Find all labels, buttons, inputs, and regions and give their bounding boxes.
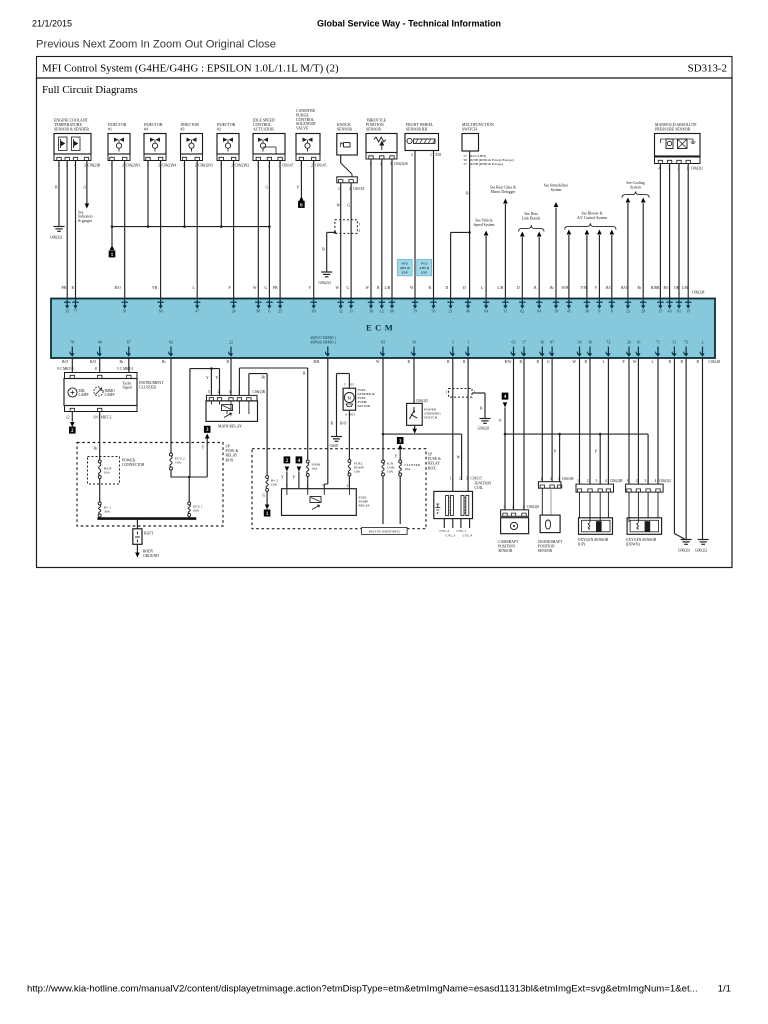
wire injector #2 supply [220,161,222,227]
ECM pin 23 [627,299,629,307]
svg-text:CYL.2: CYL.2 [440,529,450,533]
wire fuel pump fuse to relay pin2 [348,476,350,489]
svg-text:P: P [293,476,295,480]
svg-text:I/P: I/P [428,453,432,457]
svg-text:& gauges: & gauges [78,219,93,223]
svg-text:B/O: B/O [62,360,68,364]
ECM pin 21 [450,299,452,307]
wire TPS pin1 to ECM 39 [370,159,372,299]
wire ECM 51 to ground [673,358,675,534]
svg-text:C06(2)8: C06(2)8 [692,291,704,295]
svg-text:4: 4 [229,390,231,394]
svg-text:C06108: C06108 [562,477,574,481]
svg-text:Speed System: Speed System [474,223,495,227]
svg-text:SENSOR & SENDER: SENSOR & SENDER [54,127,89,131]
svg-text:C06(2)N2: C06(2)N2 [235,164,250,168]
svg-text:10A: 10A [312,467,319,471]
wire ECT pin1 to ground [58,161,60,227]
svg-text:54: 54 [578,339,582,344]
svg-text:System: System [630,185,641,189]
svg-text:G06(2)3: G06(2)3 [678,549,690,553]
flag 1 [109,250,116,257]
wire to B+1 fuse [99,479,101,503]
svg-text:L/B: L/B [498,286,504,290]
wire MAP pin4 to ECM 15 [659,164,661,299]
wire ECM 87 to crank pin2 [551,358,553,482]
svg-text:30A: 30A [104,510,111,514]
svg-text:84: 84 [537,309,541,314]
svg-text:G: G [347,286,350,290]
wire motor to fuel pump fuse [348,410,350,459]
wire ECM 2 to ground [702,358,704,539]
svg-text:M23B (RHD & Europe): M23B (RHD & Europe) [469,162,504,166]
W line to ignition coil [383,433,462,435]
svg-text:Y/B: Y/B [581,286,588,290]
svg-text:FRONT WHEEL: FRONT WHEEL [406,123,434,127]
wire P to crank pin3 [559,434,561,482]
svg-text:B/W: B/W [505,360,512,364]
svg-text:C06(2)N4: C06(2)N4 [162,164,177,168]
svg-text:4: 4 [655,479,657,483]
svg-text:31: 31 [503,309,507,314]
svg-text:SENSOR: SENSOR [366,127,381,131]
svg-text:60: 60 [159,309,163,314]
wire SNSR fuse to relay pin3 [307,477,309,489]
svg-text:25: 25 [278,309,282,314]
svg-text:W: W [337,204,341,208]
svg-text:GROUND: GROUND [143,554,159,558]
svg-text:1: 1 [359,223,361,227]
wire MIL from ECM 78 [71,358,73,373]
knock sensor connector C06118 [337,177,358,183]
svg-text:G06(2)1: G06(2)1 [478,427,490,431]
flag 1 (fuel) [264,510,271,517]
svg-text:10A: 10A [175,461,182,465]
svg-text:73: 73 [684,339,688,344]
wire B+2 fuse to flag1 [266,491,268,504]
svg-text:C06147: C06147 [282,164,294,168]
wire to vehicle speed system [485,236,487,299]
svg-text:CYL.1: CYL.1 [457,529,467,533]
svg-text:3: 3 [645,479,647,483]
wire ECM 46/49 to fuel pump relay [327,358,329,484]
svg-text:2: 2 [158,164,160,168]
svg-text:Signal: Signal [123,386,132,390]
svg-text:2: 2 [195,164,197,168]
svg-text:57: 57 [464,162,468,166]
svg-text:91: 91 [123,309,127,314]
svg-text:1: 1 [577,479,579,483]
wire to rear glass defogger [504,204,506,299]
svg-text:B/O: B/O [90,360,96,364]
svg-text:9 C MKT-2: 9 C MKT-2 [57,367,74,371]
wire bus to joint flag [111,227,113,246]
svg-text:ACTUATOR: ACTUATOR [253,127,274,131]
wire battery to body ground [136,544,138,553]
svg-text:C06(2)N3: C06(2)N3 [198,164,213,168]
svg-text:LAMP: LAMP [79,393,89,397]
svg-text:2: 2 [231,164,233,168]
wire injector #2 signal [233,161,235,299]
wire MAP pin3 to ECM 43 [669,164,671,299]
flag 4 (fuel) [296,456,303,463]
instrument cluster [65,373,138,379]
svg-text:TEMPERATURE: TEMPERATURE [54,123,83,127]
svg-text:W: W [633,360,637,364]
svg-text:2: 2 [636,479,638,483]
svg-text:2: 2 [411,153,413,157]
ECM pin 31 [504,299,506,307]
ECM pin 43 [669,299,671,307]
wire relay pin3 to SNSR fuse [238,368,240,395]
svg-text:3: 3 [466,477,468,481]
svg-text:R/B: R/B [314,360,320,364]
svg-text:10A: 10A [405,467,412,471]
svg-text:1: 1 [523,505,525,509]
svg-text:1/1: 1/1 [718,984,731,995]
wire ECM 72 to oxy-up pin4 [607,358,609,484]
svg-text:W/O: W/O [421,261,428,265]
svg-text:49(With IMMO.): 49(With IMMO.) [310,341,336,345]
svg-text:1: 1 [450,477,452,481]
svg-text:10A: 10A [104,471,111,475]
ECM pin 69 [313,299,315,307]
svg-text:63: 63 [512,339,516,344]
svg-text:60: 60 [390,309,394,314]
svg-text:G: G [263,494,266,498]
wire injector #1 signal [124,161,126,299]
flag 3 (cluster fuse) [397,437,404,444]
svg-text:2: 2 [122,164,124,168]
option box W/ ABS & ESP [417,259,432,276]
svg-text:G06(2)3: G06(2)3 [319,281,331,285]
wire ECM 36 to oxy-up pin2 [589,358,591,484]
svg-text:INJECTOR: INJECTOR [144,123,163,127]
wire TPS pin2 to ECM 12 [381,159,383,299]
svg-text:#3: #3 [181,127,185,131]
svg-text:G: G [266,186,269,190]
svg-text:ABS &: ABS & [419,266,429,270]
svg-text:72: 72 [606,339,610,344]
ECM pin 81 [678,299,680,307]
wire PS switch to W line [414,425,416,429]
ECM pin 60 [391,299,393,307]
svg-text:B/O: B/O [115,286,121,290]
wire ECM 1 to coil pin3 [467,358,469,491]
wire injector #4 supply [147,161,149,227]
ECM pin 91 [124,299,126,307]
svg-text:IDLE SPEED: IDLE SPEED [253,119,275,123]
svg-text:46(W/O IMMO.): 46(W/O IMMO.) [310,336,336,340]
svg-text:POWER: POWER [122,459,135,463]
svg-text:SD313-2: SD313-2 [688,63,727,75]
svg-text:62: 62 [520,309,524,314]
svg-text:L/B: L/B [385,286,391,290]
svg-text:9: 9 [598,309,600,314]
svg-text:69: 69 [312,309,316,314]
svg-text:45: 45 [567,309,571,314]
svg-text:KNOCK: KNOCK [337,123,351,127]
svg-text:3: 3 [452,339,454,344]
svg-text:W: W [366,286,370,290]
svg-text:ABS &: ABS & [400,266,410,270]
svg-text:4: 4 [605,479,607,483]
svg-text:RELAY: RELAY [428,462,440,466]
svg-text:W: W [573,360,577,364]
wire junction to ECU1 fuse [188,477,190,502]
svg-text:YB: YB [152,286,158,290]
svg-text:W/O: W/O [401,261,408,265]
note HOT IN ON(START) [362,528,408,535]
svg-text:COIL: COIL [475,486,484,490]
power steering switch [407,403,423,425]
svg-text:M: M [348,395,352,400]
svg-text:OXYGEN SENSOR: OXYGEN SENSOR [578,538,609,542]
flag 2 (fuel) [284,456,291,463]
P distribution line [505,433,648,435]
svg-text:CYL.3: CYL.3 [446,533,456,537]
fuse B+2 10A [266,475,269,478]
svg-text:87: 87 [550,339,554,344]
svg-text:D: D [446,286,449,290]
flag 2 [69,427,76,434]
svg-text:PB: PB [273,286,278,290]
wire bus to battery [136,519,138,529]
ground G06(2)3 right [681,539,692,541]
svg-text:PURGE: PURGE [296,113,309,117]
svg-text:(UP): (UP) [578,543,586,547]
svg-text:10: 10 [412,339,416,344]
svg-text:C06(2)R: C06(2)R [253,390,266,394]
svg-text:POSITION: POSITION [538,545,555,549]
svg-text:B/BR: B/BR [651,286,660,290]
wire flag4 to camshaft sensor [504,407,506,509]
wire flag3 to cluster fuse chain [206,439,208,478]
svg-text:10A: 10A [354,470,361,474]
svg-text:77: 77 [74,309,78,314]
svg-text:C06(2)B: C06(2)B [88,164,101,168]
ECM pin 62 [521,299,523,307]
svg-text:INSTRUMENT: INSTRUMENT [139,381,164,385]
fuse ECU2 10A [170,358,172,453]
wire ECU2 to junction [170,470,172,477]
svg-text:36: 36 [588,339,592,344]
svg-text:3: 3 [596,479,598,483]
svg-text:FUSE &: FUSE & [226,449,239,453]
svg-text:http://www.kia-hotline.com/man: http://www.kia-hotline.com/manualV2/cont… [27,984,698,995]
wire ECM 36 to crank pin1 [541,358,543,482]
wire knock shield to ground [334,231,337,234]
battery BATT [133,529,142,545]
fuse SNSR 10A [306,460,309,463]
wire ISCA pin2 to ECM 6 [268,161,270,299]
svg-text:71: 71 [656,339,660,344]
svg-text:51: 51 [672,339,676,344]
svg-text:3: 3 [307,484,309,488]
wire immo lamp to power connector [99,412,101,461]
svg-text:64: 64 [484,309,488,314]
svg-text:26: 26 [627,339,631,344]
ECM pin 15 [659,299,661,307]
svg-text:ENGINE COOLANT: ENGINE COOLANT [54,119,89,123]
svg-text:Y: Y [281,476,284,480]
svg-text:2: 2 [84,164,86,168]
svg-text:D: D [227,360,230,364]
flag 3 (main relay) [204,426,211,433]
wire IMMO from ECM 40 [99,358,101,373]
wire ECM 10 to power steering switch [413,358,415,403]
wire knock pin1 to ECM 32 [340,183,342,299]
wire ECM 3 to coil pin1 [452,358,454,491]
svg-text:Y: Y [595,286,598,290]
svg-text:ESP: ESP [421,271,427,275]
svg-text:PB: PB [62,286,67,290]
svg-text:30: 30 [585,309,589,314]
svg-text:D: D [517,286,520,290]
svg-text:INJECTOR: INJECTOR [108,123,127,127]
svg-text:2: 2 [550,477,552,481]
wire FWS pin2 to ECM 79 [414,151,416,299]
svg-text:FUSE &: FUSE & [428,457,441,461]
svg-text:1: 1 [467,339,469,344]
ECM pin 46 [467,299,469,307]
svg-text:B/O: B/O [664,286,670,290]
svg-text:B: B [322,248,325,252]
wire injector #4 signal [160,161,162,299]
fuse CLUSTER 10A [399,460,402,463]
svg-text:Y: Y [206,376,209,380]
svg-text:CLUSTER: CLUSTER [139,385,156,389]
svg-text:W/B: W/B [562,286,570,290]
svg-text:12: 12 [380,309,384,314]
svg-text:81: 81 [677,309,681,314]
diagram frame [37,78,733,568]
ground G608 [331,436,342,438]
svg-text:MOTOR: MOTOR [358,404,371,408]
svg-text:MULTIFUNCTION: MULTIFUNCTION [462,123,494,127]
svg-text:POSITION: POSITION [498,545,515,549]
power connector [88,457,120,485]
ECM pin 28 [642,299,644,307]
svg-text:C06148: C06148 [709,360,721,364]
svg-text:BOX: BOX [226,458,234,462]
svg-text:W: W [336,286,340,290]
svg-text:2: 2 [459,477,461,481]
wire ECM 73 to ground [685,358,687,539]
fuse FUEL PUMP 10A [348,459,351,462]
wire flag3 to cluster fuse [399,449,401,460]
option box W/O ABS & ESP [397,259,412,276]
wire knock pin2 to ECM 11 [350,183,352,299]
svg-text:16: 16 [636,339,640,344]
svg-text:4: 4 [345,412,347,416]
ECM pin 32 [340,299,342,307]
svg-text:47: 47 [195,309,199,314]
svg-text:G: G [84,186,87,190]
wire FWS pin1 to ECM 56 [433,151,435,299]
svg-text:2: 2 [587,479,589,483]
svg-text:98: 98 [256,309,260,314]
svg-text:BATT: BATT [144,532,154,536]
svg-text:P: P [297,186,299,190]
wire ISCA pin3 to ECM 25 [279,161,281,299]
svg-text:79: 79 [413,309,417,314]
svg-text:HOT IN ON(START): HOT IN ON(START) [369,529,400,533]
ECM pin 30 [586,299,588,307]
injector supply bus [112,226,269,228]
wire injector #3 supply [184,161,186,227]
svg-text:Full Circuit Diagrams: Full Circuit Diagrams [42,84,138,96]
I/P fuse & relay box (left) [77,443,223,527]
svg-text:SOLENOID: SOLENOID [296,122,316,126]
svg-text:11: 11 [349,309,353,314]
svg-text:39: 39 [369,309,373,314]
svg-text:C06(2)2: C06(2)2 [659,479,671,483]
svg-text:PRESSURE SENSOR: PRESSURE SENSOR [655,127,691,131]
svg-text:P: P [554,450,556,454]
fuse IGN COIL 10A [382,460,385,463]
ECM pin 19 [687,299,689,307]
svg-text:#1: #1 [108,127,112,131]
svg-text:SENSOR: SENSOR [538,549,553,553]
wire cluster tacho from ECM 67 [128,358,130,373]
svg-text:W: W [253,286,257,290]
svg-text:6: 6 [268,309,270,314]
svg-text:Link Details: Link Details [522,216,541,220]
svg-text:17: 17 [522,339,526,344]
svg-text:8: 8 [95,367,97,371]
svg-text:CRANKSHAFT: CRANKSHAFT [538,540,563,544]
wire Y bus down to fuse box [189,369,191,477]
ECM pin 25 [279,299,281,307]
wire ECT pin3 to ECM 35 [66,161,68,299]
ECM pin 35 [66,299,68,307]
ECM pin 64 [485,299,487,307]
wire ECM 22 to relay pin4 [230,358,232,395]
svg-text:C06(2)N1: C06(2)N1 [126,164,141,168]
svg-text:C06115: C06115 [471,477,482,481]
ECM pin 60 [160,299,162,307]
svg-text:G: G [347,204,350,208]
svg-text:G: G [265,286,268,290]
svg-text:System: System [551,188,562,192]
svg-text:CANISTER: CANISTER [296,109,315,113]
svg-text:10A: 10A [271,483,278,487]
svg-text:30A: 30A [193,509,200,513]
wire ECM 26 to oxy-down pin1 [628,358,630,484]
svg-text:3: 3 [504,505,506,509]
wire relay pin1 to B+2 fuse [248,374,250,396]
ECM pin 12 [381,299,383,307]
wire flag4 down [298,472,300,489]
svg-text:P: P [595,450,597,454]
svg-text:5: 5 [344,382,346,386]
svg-text:19: 19 [686,309,690,314]
ECM pin 77 [75,299,77,307]
svg-text:35: 35 [65,309,69,314]
svg-text:3: 3 [558,477,560,481]
wire TPS pin3 to ECM 60 [391,159,393,299]
ECM pin 56 [433,299,435,307]
wire injector #3 signal [196,161,198,299]
svg-text:CONTROL: CONTROL [296,118,315,122]
wire ECM 16 to oxy-down pin2 [637,358,639,484]
wire injector #1 supply [111,161,113,227]
svg-text:MFI Control System (G4HE/G4HG: MFI Control System (G4HE/G4HG : EPSILON … [42,63,339,75]
svg-text:32: 32 [339,309,343,314]
wire knock sensor lead [340,155,342,163]
ECM pin 24 [233,299,235,307]
